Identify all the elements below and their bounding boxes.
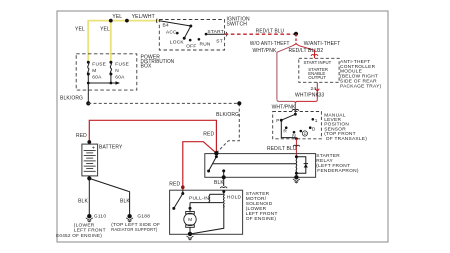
svg-text:B4: B4 xyxy=(163,23,169,29)
svg-text:LOCK: LOCK xyxy=(170,40,185,46)
svg-text:SWITCH: SWITCH xyxy=(227,22,248,28)
svg-text:1: 1 xyxy=(315,118,318,124)
svg-text:RED: RED xyxy=(169,182,180,188)
svg-text:24: 24 xyxy=(311,86,317,92)
svg-text:OF TRANSAXLE): OF TRANSAXLE) xyxy=(326,136,367,142)
svg-text:RADIATOR SUPPORT): RADIATOR SUPPORT) xyxy=(111,227,157,233)
svg-text:32: 32 xyxy=(318,48,324,54)
svg-text:LEFT FRONT: LEFT FRONT xyxy=(74,228,106,234)
svg-text:E0452 OF ENGINE): E0452 OF ENGINE) xyxy=(56,233,102,239)
svg-text:60A: 60A xyxy=(92,75,102,81)
svg-text:N: N xyxy=(115,68,119,74)
svg-text:BLK: BLK xyxy=(214,180,224,186)
svg-text:M: M xyxy=(188,217,192,222)
svg-text:WHT/PNK: WHT/PNK xyxy=(295,92,319,98)
svg-text:RED/LT BLU: RED/LT BLU xyxy=(267,146,297,152)
svg-text:YEL: YEL xyxy=(75,26,85,32)
svg-text:OF ENGINE): OF ENGINE) xyxy=(246,216,277,222)
svg-text:M: M xyxy=(92,68,96,74)
svg-text:FUSE: FUSE xyxy=(115,61,129,67)
svg-text:ACC: ACC xyxy=(166,29,177,35)
svg-text:BOX: BOX xyxy=(141,64,152,70)
svg-text:YEL: YEL xyxy=(112,14,122,20)
svg-text:P: P xyxy=(276,118,279,124)
svg-text:BLK: BLK xyxy=(120,198,130,204)
svg-text:W/O ANTI-THEFT: W/O ANTI-THEFT xyxy=(250,41,290,47)
svg-text:PULL-IN: PULL-IN xyxy=(189,195,209,201)
svg-text:G110: G110 xyxy=(94,213,106,219)
svg-text:RED: RED xyxy=(203,131,214,137)
svg-text:D: D xyxy=(312,127,316,133)
svg-text:N: N xyxy=(292,133,296,139)
svg-text:OFF: OFF xyxy=(186,44,196,50)
svg-text:YEL/WHT: YEL/WHT xyxy=(132,14,155,20)
svg-text:BLK: BLK xyxy=(78,198,88,204)
svg-text:ST: ST xyxy=(216,39,223,45)
svg-text:FENDERAPRON): FENDERAPRON) xyxy=(317,168,359,174)
svg-text:BLK/ORG: BLK/ORG xyxy=(60,96,83,102)
svg-text:RED: RED xyxy=(76,133,87,139)
svg-text:BLK/ORG: BLK/ORG xyxy=(216,112,239,118)
svg-text:RUN: RUN xyxy=(200,42,211,48)
svg-text:PACKAGE TRAY): PACKAGE TRAY) xyxy=(340,83,382,89)
svg-text:BATTERY: BATTERY xyxy=(99,145,123,151)
svg-text:STARTER: STARTER xyxy=(316,153,340,159)
svg-text:33: 33 xyxy=(319,93,325,99)
svg-text:FUSE: FUSE xyxy=(92,61,106,67)
svg-text:YEL: YEL xyxy=(100,26,110,32)
svg-text:60A: 60A xyxy=(115,75,125,81)
svg-text:START: START xyxy=(207,29,224,35)
svg-text:WHT/PNK: WHT/PNK xyxy=(253,48,277,54)
svg-text:RED/LT BLU: RED/LT BLU xyxy=(289,48,319,54)
svg-text:OUTPUT: OUTPUT xyxy=(308,75,326,80)
svg-text:W/ANTI-THEFT: W/ANTI-THEFT xyxy=(304,41,341,47)
svg-text:D: D xyxy=(304,131,307,136)
svg-text:HOLD: HOLD xyxy=(227,194,242,200)
svg-text:START INPUT: START INPUT xyxy=(304,60,332,65)
svg-text:R: R xyxy=(283,128,287,134)
svg-text:(LEFT FRONT: (LEFT FRONT xyxy=(316,163,350,169)
svg-text:RED/LT BLU: RED/LT BLU xyxy=(256,29,285,35)
svg-text:G188: G188 xyxy=(137,213,150,219)
